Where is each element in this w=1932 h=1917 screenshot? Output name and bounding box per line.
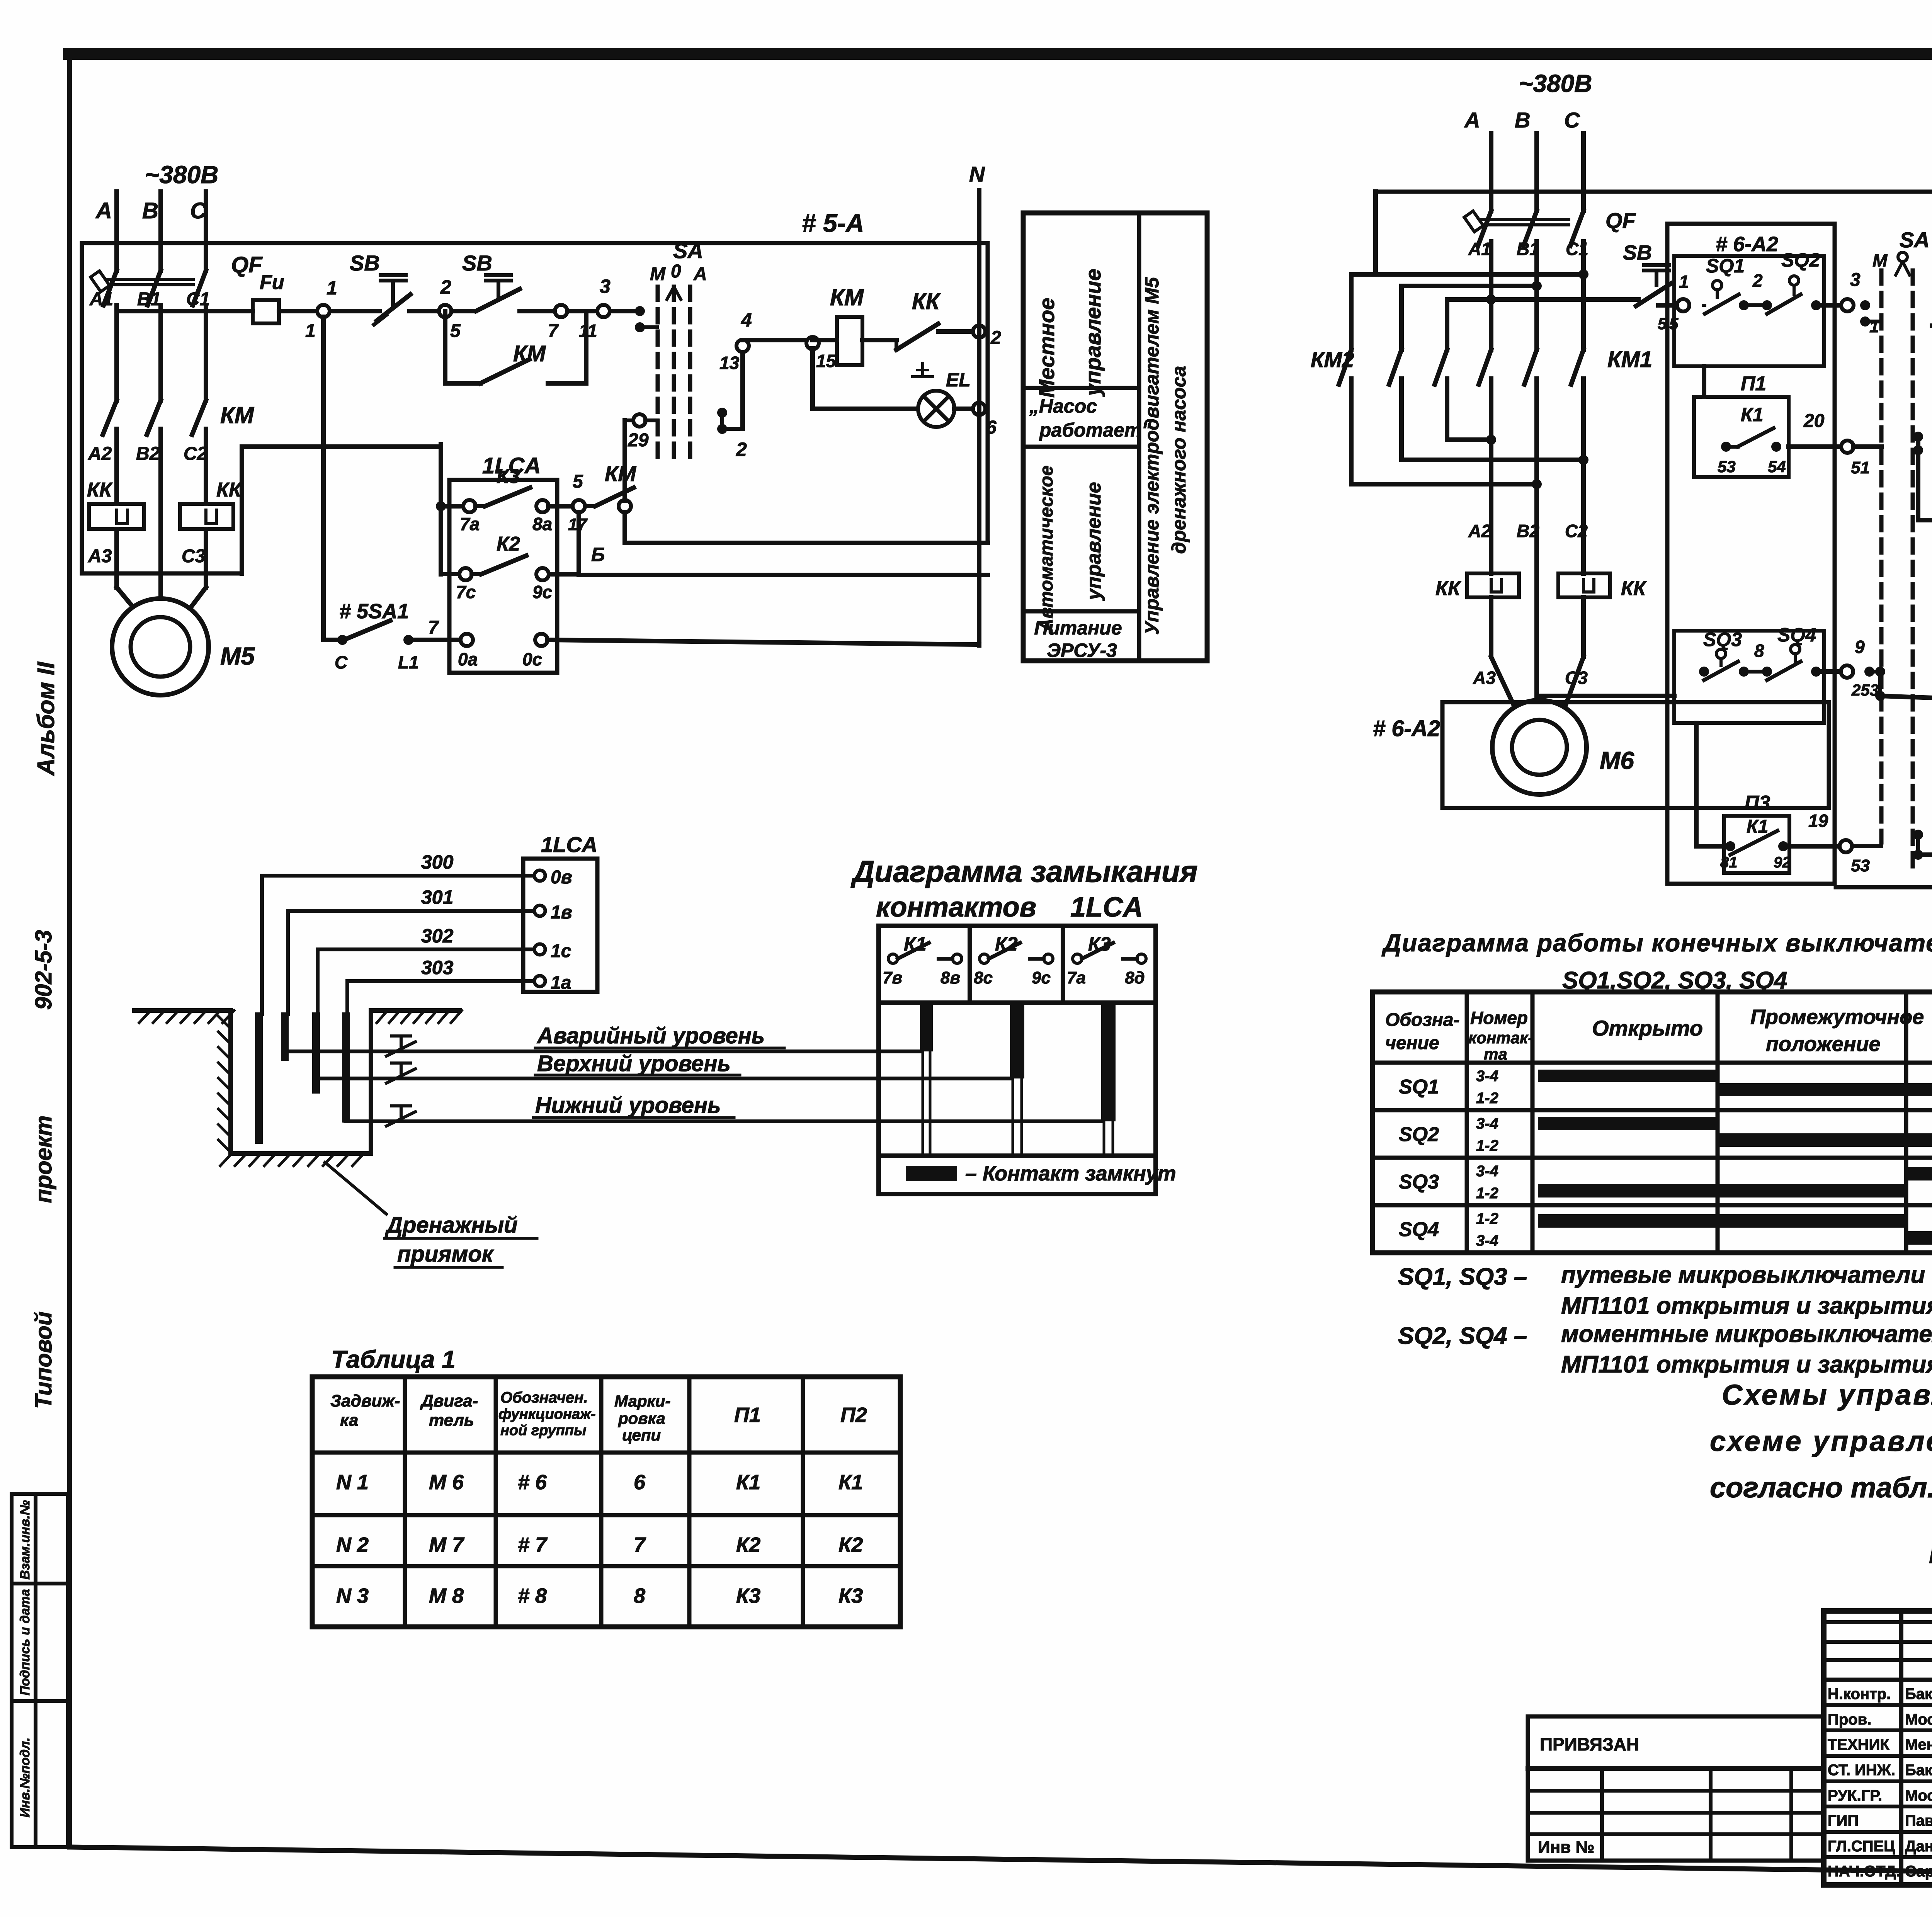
svg-text:5: 5 bbox=[1658, 315, 1667, 333]
svg-text:приямок: приямок bbox=[397, 1242, 494, 1267]
svg-text:П2: П2 bbox=[840, 1403, 867, 1427]
svg-text:SQ1, SQ3 –: SQ1, SQ3 – bbox=[1398, 1264, 1527, 1290]
svg-text:М5: М5 bbox=[220, 642, 255, 670]
svg-text:Бакшеева: Бакшеева bbox=[1905, 1762, 1932, 1779]
svg-text:Двига-: Двига- bbox=[420, 1391, 478, 1410]
svg-text:Обозна-: Обозна- bbox=[1385, 1010, 1460, 1030]
svg-text:SQ1: SQ1 bbox=[1399, 1076, 1439, 1098]
svg-text:Мосеенко: Мосеенко bbox=[1905, 1787, 1932, 1804]
svg-text:253: 253 bbox=[1851, 681, 1879, 699]
svg-text:М 7: М 7 bbox=[429, 1533, 465, 1556]
svg-text:303: 303 bbox=[421, 957, 454, 978]
svg-text:0с: 0с bbox=[522, 649, 542, 669]
svg-text:НАЧ.ОТД.: НАЧ.ОТД. bbox=[1828, 1863, 1900, 1880]
svg-text:7: 7 bbox=[634, 1533, 646, 1556]
svg-text:Аварийный уровень: Аварийный уровень bbox=[536, 1023, 765, 1048]
svg-text:В2: В2 bbox=[136, 444, 160, 464]
svg-text:Н.контр.: Н.контр. bbox=[1828, 1686, 1891, 1703]
svg-text:С3: С3 bbox=[182, 546, 206, 566]
svg-text:5: 5 bbox=[1669, 315, 1679, 333]
svg-text:проект: проект bbox=[31, 1115, 56, 1203]
svg-text:# 7: # 7 bbox=[518, 1533, 548, 1556]
svg-text:# 6-А2: # 6-А2 bbox=[1716, 233, 1778, 256]
svg-text:8: 8 bbox=[1754, 641, 1764, 661]
svg-text:КМ: КМ bbox=[830, 284, 864, 310]
svg-text:Диаграмма замыкания: Диаграмма замыкания bbox=[850, 854, 1198, 888]
svg-text:КК: КК bbox=[87, 479, 113, 501]
svg-text:К1: К1 bbox=[736, 1471, 760, 1494]
svg-text:# 6-А2: # 6-А2 bbox=[1373, 716, 1440, 741]
svg-text:С: С bbox=[1564, 108, 1580, 132]
svg-text:1-2: 1-2 bbox=[1476, 1137, 1498, 1154]
svg-text:управление: управление bbox=[1083, 482, 1105, 601]
svg-text:3-4: 3-4 bbox=[1476, 1115, 1498, 1132]
svg-text:А2: А2 bbox=[1468, 521, 1491, 541]
svg-text:N: N bbox=[969, 162, 985, 186]
svg-text:Таблица 1: Таблица 1 bbox=[331, 1345, 456, 1373]
svg-text:Местное: Местное bbox=[1034, 298, 1059, 398]
svg-text:# 8: # 8 bbox=[518, 1584, 547, 1607]
svg-text:1-2: 1-2 bbox=[1476, 1090, 1498, 1107]
svg-text:А1: А1 bbox=[89, 289, 113, 310]
svg-text:0в: 0в bbox=[551, 867, 572, 888]
svg-text:Даниилов: Даниилов bbox=[1905, 1838, 1932, 1855]
svg-text:9с: 9с bbox=[532, 582, 552, 602]
svg-text:путевые микровыключатели: путевые микровыключатели bbox=[1561, 1262, 1925, 1288]
svg-text:дренажного насоса: дренажного насоса bbox=[1168, 366, 1190, 554]
svg-text:КМ1: КМ1 bbox=[1607, 347, 1652, 372]
svg-text:М: М bbox=[1872, 250, 1888, 270]
svg-text:1: 1 bbox=[305, 321, 316, 341]
svg-text:SQ2: SQ2 bbox=[1399, 1123, 1439, 1146]
svg-text:Бакшеева: Бакшеева bbox=[1905, 1686, 1932, 1703]
svg-text:0: 0 bbox=[671, 261, 681, 282]
svg-text:К3: К3 bbox=[497, 465, 520, 488]
svg-text:1а: 1а bbox=[551, 973, 571, 993]
svg-text:300: 300 bbox=[421, 851, 454, 873]
svg-text:Подпись и дата: Подпись и дата bbox=[18, 1589, 32, 1696]
svg-text:КК: КК bbox=[1435, 577, 1461, 600]
svg-text:# 5SA1: # 5SA1 bbox=[339, 600, 409, 623]
svg-text:М 6: М 6 bbox=[429, 1471, 464, 1494]
svg-text:3: 3 bbox=[1850, 270, 1861, 290]
svg-text:К3: К3 bbox=[736, 1584, 760, 1607]
svg-text:N 1: N 1 bbox=[336, 1471, 369, 1494]
svg-text:SQ4: SQ4 bbox=[1399, 1218, 1439, 1241]
svg-text:53: 53 bbox=[1718, 458, 1736, 476]
svg-text:SA: SA bbox=[673, 238, 703, 263]
svg-text:1LCA: 1LCA bbox=[541, 832, 597, 857]
svg-text:1в: 1в bbox=[551, 902, 572, 923]
svg-text:Марки-: Марки- bbox=[614, 1392, 670, 1410]
svg-text:2: 2 bbox=[440, 276, 451, 298]
svg-text:Диаграмма работы конечных в: Диаграмма работы конечных выключателей bbox=[1381, 929, 1932, 957]
svg-text:8в: 8в bbox=[940, 968, 960, 987]
svg-text:СТ. ИНЖ.: СТ. ИНЖ. bbox=[1828, 1762, 1895, 1779]
svg-text:А: А bbox=[693, 264, 707, 284]
svg-text:Мосеенко: Мосеенко bbox=[1905, 1711, 1932, 1728]
svg-text:цепи: цепи bbox=[622, 1426, 661, 1444]
svg-text:РУК.ГР.: РУК.ГР. bbox=[1828, 1787, 1882, 1804]
svg-text:К2: К2 bbox=[497, 533, 520, 555]
svg-text:та: та bbox=[1484, 1045, 1507, 1063]
svg-text:1: 1 bbox=[327, 277, 337, 299]
svg-text:Схемы управления задвижками М7: Схемы управления задвижками М7,М8 аналог… bbox=[1722, 1379, 1932, 1411]
svg-text:7а: 7а bbox=[1067, 968, 1086, 987]
svg-text:Пров.: Пров. bbox=[1828, 1711, 1871, 1728]
svg-text:К2: К2 bbox=[736, 1533, 760, 1556]
svg-text:2: 2 bbox=[736, 439, 747, 460]
svg-text:КМ: КМ bbox=[220, 402, 255, 428]
svg-text:Взам.инв.№: Взам.инв.№ bbox=[18, 1500, 32, 1580]
svg-text:функционаж-: функционаж- bbox=[498, 1406, 596, 1422]
svg-text:9с: 9с bbox=[1032, 968, 1051, 987]
svg-text:7а: 7а bbox=[460, 514, 480, 534]
svg-text:П1: П1 bbox=[1741, 373, 1766, 395]
svg-text:302: 302 bbox=[421, 925, 454, 947]
svg-text:3-4: 3-4 bbox=[1476, 1232, 1498, 1249]
svg-text:15: 15 bbox=[816, 351, 837, 371]
svg-text:20: 20 bbox=[1803, 411, 1825, 431]
svg-text:N 3: N 3 bbox=[336, 1584, 369, 1607]
svg-text:Дренажный: Дренажный bbox=[384, 1213, 518, 1238]
svg-text:29: 29 bbox=[628, 430, 649, 451]
svg-text:моментные микровыключатели: моментные микровыключатели bbox=[1561, 1321, 1932, 1347]
svg-text:тель: тель bbox=[429, 1411, 474, 1430]
svg-text:А3: А3 bbox=[88, 546, 112, 566]
svg-text:контактов: контактов bbox=[876, 892, 1036, 923]
svg-text:1LCA: 1LCA bbox=[1070, 892, 1143, 923]
svg-text:81: 81 bbox=[1720, 854, 1738, 871]
svg-text:1-2: 1-2 bbox=[1476, 1210, 1498, 1227]
svg-text:8с: 8с bbox=[974, 968, 993, 987]
svg-text:Инв.№подл.: Инв.№подл. bbox=[18, 1737, 32, 1817]
svg-text:В: В bbox=[1515, 108, 1530, 132]
svg-text:2: 2 bbox=[990, 328, 1001, 348]
svg-text:Меновщикова: Меновщикова bbox=[1905, 1736, 1932, 1753]
svg-text:3-4: 3-4 bbox=[1476, 1068, 1498, 1085]
svg-text:схеме управления задвижкой: схеме управления задвижкой М6 с изменени… bbox=[1710, 1425, 1932, 1457]
svg-text:301: 301 bbox=[421, 886, 453, 908]
svg-text:QF: QF bbox=[231, 252, 263, 277]
svg-text:В2: В2 bbox=[1517, 521, 1539, 541]
svg-text:SQ3: SQ3 bbox=[1399, 1171, 1439, 1193]
svg-text:К1: К1 bbox=[838, 1471, 863, 1494]
svg-text:SQ1: SQ1 bbox=[1706, 255, 1745, 277]
svg-text:N 2: N 2 bbox=[336, 1533, 369, 1556]
svg-text:КК: КК bbox=[216, 479, 242, 501]
svg-text:Альбом II: Альбом II bbox=[33, 661, 60, 776]
svg-text:ПРИВЯЗАН: ПРИВЯЗАН bbox=[1540, 1734, 1639, 1754]
svg-text:С: С bbox=[335, 652, 348, 672]
svg-text:МП1101 открытия и закрытия: МП1101 открытия и закрытия bbox=[1561, 1293, 1932, 1319]
svg-text:работает": работает" bbox=[1039, 419, 1151, 441]
svg-text:8д: 8д bbox=[1125, 968, 1145, 987]
svg-text:Типовой: Типовой bbox=[31, 1311, 56, 1409]
svg-text:54: 54 bbox=[1768, 458, 1786, 476]
svg-text:КК: КК bbox=[912, 289, 941, 314]
svg-text:2: 2 bbox=[1752, 270, 1763, 291]
svg-text:ТЕХНИК: ТЕХНИК bbox=[1828, 1736, 1889, 1753]
svg-text:8: 8 bbox=[634, 1584, 645, 1607]
svg-text:ной группы: ной группы bbox=[500, 1422, 586, 1439]
svg-text:SQ2, SQ4 –: SQ2, SQ4 – bbox=[1398, 1323, 1527, 1349]
svg-text:SA: SA bbox=[1900, 228, 1930, 252]
svg-text:А3: А3 bbox=[1473, 668, 1496, 688]
svg-text:7: 7 bbox=[428, 617, 439, 638]
svg-text:3-4: 3-4 bbox=[1476, 1163, 1498, 1180]
svg-text:19: 19 bbox=[1808, 811, 1828, 831]
svg-text:„Насос: „Насос bbox=[1029, 395, 1097, 417]
svg-text:0а: 0а bbox=[458, 649, 478, 669]
svg-text:МП1101 открытия и закрытия: МП1101 открытия и закрытия bbox=[1561, 1351, 1932, 1378]
svg-text:С2: С2 bbox=[1565, 521, 1588, 541]
svg-text:902-5-3: 902-5-3 bbox=[31, 930, 56, 1010]
svg-text:М 8: М 8 bbox=[429, 1584, 464, 1607]
svg-text:К3: К3 bbox=[838, 1584, 863, 1607]
svg-text:~380В: ~380В bbox=[1519, 70, 1592, 97]
svg-text:управление: управление bbox=[1081, 269, 1105, 397]
svg-text:А: А bbox=[1464, 108, 1480, 132]
svg-text:В: В bbox=[142, 198, 158, 223]
svg-text:С2: С2 bbox=[184, 444, 207, 464]
svg-text:51: 51 bbox=[1851, 458, 1870, 477]
svg-text:Обозначен.: Обозначен. bbox=[500, 1389, 588, 1406]
svg-text:EL: EL bbox=[946, 369, 971, 391]
svg-text:L1: L1 bbox=[398, 652, 419, 672]
svg-text:К1: К1 bbox=[1741, 404, 1764, 425]
svg-text:Задвиж-: Задвиж- bbox=[330, 1391, 400, 1410]
svg-text:SQ4: SQ4 bbox=[1777, 624, 1816, 646]
svg-text:Саркисьянц: Саркисьянц bbox=[1905, 1863, 1932, 1880]
svg-text:М: М bbox=[650, 264, 666, 284]
svg-text:Инв №: Инв № bbox=[1538, 1838, 1595, 1857]
svg-text:контак-: контак- bbox=[1468, 1029, 1533, 1047]
svg-text:# 5-А: # 5-А bbox=[802, 209, 864, 237]
svg-text:53: 53 bbox=[1851, 856, 1870, 875]
svg-text:ЭРСУ-3: ЭРСУ-3 bbox=[1047, 640, 1117, 661]
svg-text:П3: П3 bbox=[1745, 792, 1770, 814]
svg-text:SQ3: SQ3 bbox=[1703, 629, 1742, 650]
svg-text:ровка: ровка bbox=[618, 1409, 665, 1427]
svg-text:SB: SB bbox=[1623, 241, 1652, 264]
svg-text:А: А bbox=[95, 198, 112, 223]
svg-text:1-2: 1-2 bbox=[1476, 1185, 1498, 1202]
svg-text:Автоматическое: Автоматическое bbox=[1036, 466, 1057, 633]
svg-text:К2: К2 bbox=[838, 1533, 863, 1556]
svg-text:8а: 8а bbox=[532, 514, 552, 534]
svg-text:SQ2: SQ2 bbox=[1781, 249, 1820, 271]
svg-text:5: 5 bbox=[573, 471, 583, 492]
svg-text:Питание: Питание bbox=[1034, 617, 1122, 639]
svg-text:ГЛ.СПЕЦ: ГЛ.СПЕЦ bbox=[1828, 1838, 1895, 1855]
svg-text:9: 9 bbox=[1855, 637, 1865, 657]
svg-text:чение: чение bbox=[1385, 1033, 1439, 1053]
svg-text:3: 3 bbox=[600, 276, 611, 297]
svg-text:В1: В1 bbox=[137, 289, 161, 310]
svg-text:Нижний уровень: Нижний уровень bbox=[535, 1093, 721, 1118]
svg-text:7с: 7с bbox=[456, 582, 476, 602]
svg-text:Fu: Fu bbox=[260, 271, 284, 294]
svg-text:КМ: КМ bbox=[605, 461, 636, 486]
svg-text:QF: QF bbox=[1605, 208, 1636, 233]
svg-text:Управление электродвигателем М: Управление электродвигателем М5 bbox=[1141, 277, 1163, 635]
svg-text:1с: 1с bbox=[551, 941, 571, 961]
svg-text:# 6: # 6 bbox=[518, 1471, 547, 1494]
svg-text:Верхний уровень: Верхний уровень bbox=[537, 1051, 731, 1076]
svg-text:А1: А1 bbox=[1468, 239, 1491, 259]
svg-text:Б: Б bbox=[591, 544, 605, 565]
svg-text:1: 1 bbox=[1679, 272, 1689, 292]
svg-text:Рассматривать совместно с лист: Рассматривать совместно с листом ЭМ-6. bbox=[1929, 1539, 1932, 1569]
svg-text:П1: П1 bbox=[734, 1403, 761, 1427]
svg-text:4: 4 bbox=[741, 309, 752, 331]
svg-text:КМ2: КМ2 bbox=[1311, 347, 1354, 372]
svg-text:5: 5 bbox=[450, 321, 461, 341]
svg-text:Промежуточное: Промежуточное bbox=[1750, 1005, 1924, 1029]
svg-text:~380В: ~380В bbox=[145, 161, 218, 189]
svg-text:Павлова: Павлова bbox=[1905, 1812, 1932, 1829]
svg-text:SB: SB bbox=[350, 251, 380, 275]
svg-text:КК: КК bbox=[1621, 577, 1647, 600]
svg-text:13: 13 bbox=[719, 353, 740, 373]
svg-text:Открыто: Открыто bbox=[1592, 1016, 1703, 1040]
svg-text:7: 7 bbox=[548, 321, 559, 341]
svg-text:92: 92 bbox=[1774, 854, 1791, 871]
svg-text:ГИП: ГИП bbox=[1828, 1812, 1859, 1829]
svg-text:6: 6 bbox=[634, 1471, 646, 1494]
svg-text:К1: К1 bbox=[1747, 816, 1768, 837]
svg-text:А2: А2 bbox=[88, 444, 112, 464]
svg-text:положение: положение bbox=[1766, 1032, 1881, 1056]
svg-text:КМ: КМ bbox=[513, 341, 546, 366]
svg-text:SB: SB bbox=[462, 251, 492, 275]
svg-text:ка: ка bbox=[340, 1411, 358, 1430]
svg-text:Номер: Номер bbox=[1470, 1008, 1528, 1028]
svg-text:согласно табл. 1: согласно табл. 1 bbox=[1710, 1471, 1932, 1504]
svg-text:М6: М6 bbox=[1600, 747, 1634, 774]
svg-text:6: 6 bbox=[986, 417, 997, 438]
svg-text:7в: 7в bbox=[883, 968, 902, 987]
svg-text:– Контакт замкнут: – Контакт замкнут bbox=[965, 1162, 1176, 1185]
